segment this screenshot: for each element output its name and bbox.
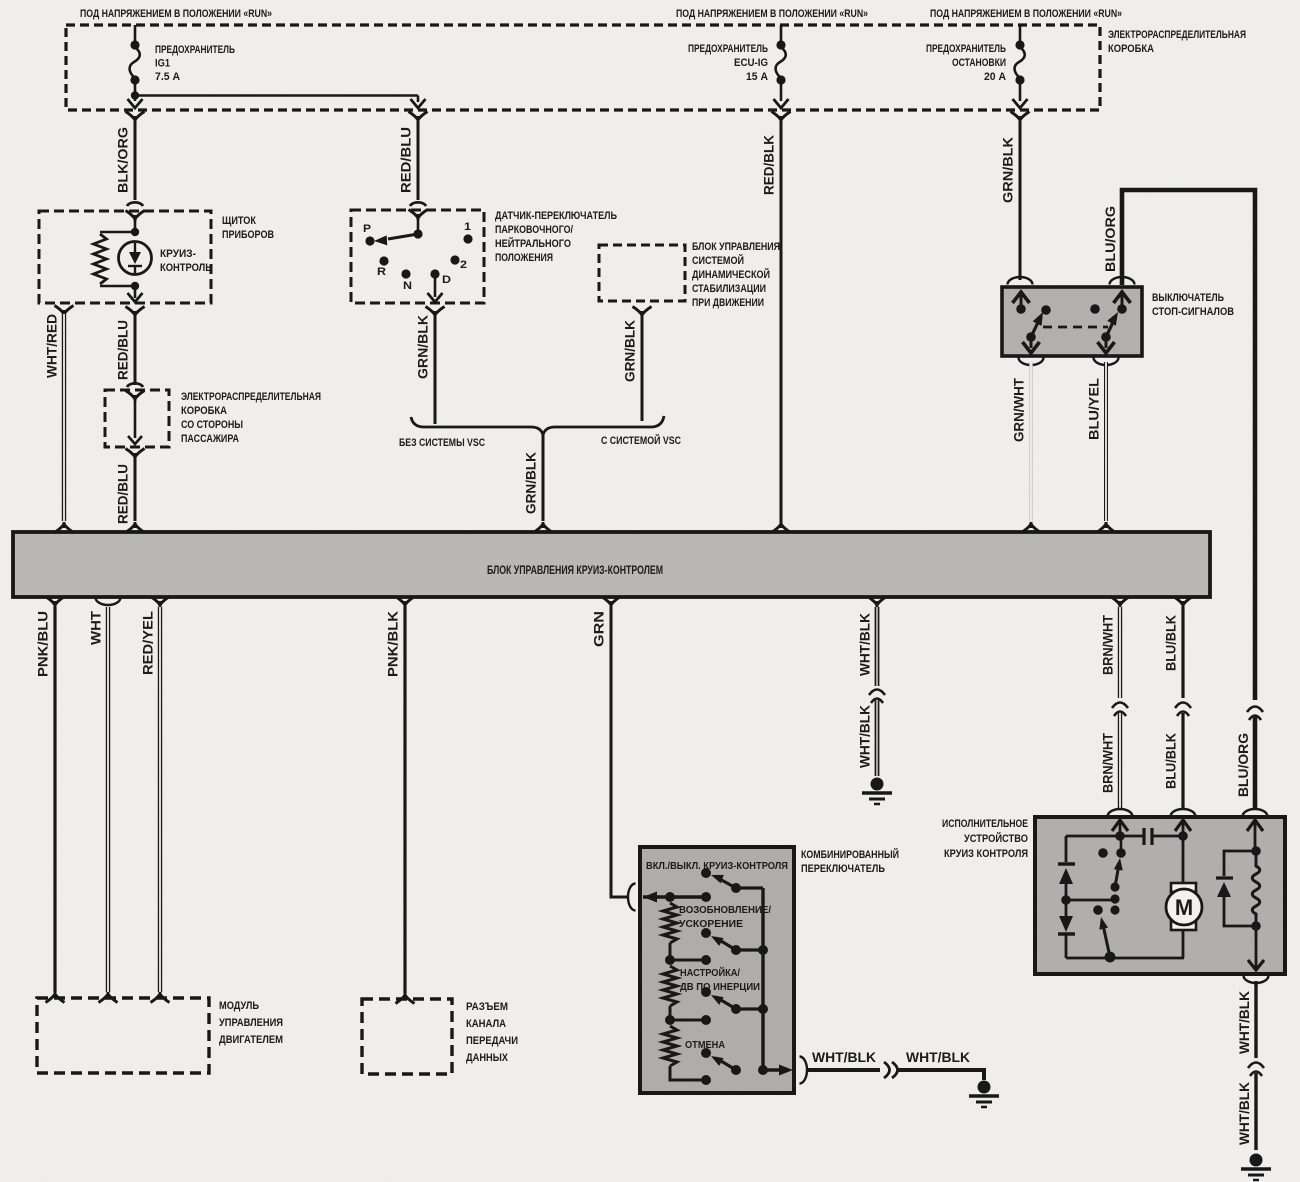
wire BLU/BLK (lower) [1181, 713, 1184, 809]
label: МОДУЛЬ УПРАВЛЕНИЯ ДВИГАТЕЛЕМ [219, 1000, 283, 1046]
main node A [665, 892, 675, 902]
wire: fuse IG1 junction to RED/BLU drop [131, 91, 426, 108]
motor M [1166, 883, 1202, 958]
wire BLU/BLK (upper) [1181, 607, 1184, 698]
wire from contact D [428, 274, 443, 302]
connector below VSC box [633, 307, 652, 318]
stop switch left blade [1031, 310, 1047, 337]
ground (actuator) [1241, 1154, 1271, 1181]
label: ВОЗОБНОВЛЕНИЕ/УСКОРЕНИЕ [679, 904, 771, 930]
wire BRN/WHT (lower) [1118, 713, 1122, 809]
wire label WHT/BLK (lower) [858, 705, 873, 768]
wire WHT/RED [62, 314, 66, 521]
break connector WHT/BLK [869, 690, 885, 704]
connector BRN/WHT at module [1111, 597, 1130, 608]
connector BLU/BLK at module [1174, 597, 1193, 608]
connector below park/neutral switch [426, 307, 445, 318]
label: ПРЕДОХРАНИТЕЛЬ ОСТАНОВКИ 20 А [926, 43, 1006, 83]
net label: ПОД НАПРЯЖЕНИЕМ В ПОЛОЖЕНИИ RUN (right) [930, 8, 1122, 20]
connector at bottom of passenger J/B [126, 449, 145, 460]
wire RED/BLK [780, 118, 783, 522]
capacitor C1 [1144, 828, 1188, 845]
wire GRN/WHT [1029, 362, 1033, 521]
wire label GRN/WHT [1012, 377, 1027, 442]
connector below stop switch (BLU/YEL) [1094, 358, 1119, 366]
wire label RED/BLU (upper) [116, 320, 131, 380]
clutch coil node top [1251, 846, 1261, 856]
cancel blade [709, 1052, 736, 1070]
wire label WHT/BLK (actuator upper) [1237, 991, 1252, 1054]
stub to set contact [670, 1015, 711, 1025]
cruise indicator lamp [119, 242, 152, 275]
cancel blade pivot [731, 1065, 741, 1075]
label: ЭЛЕКТРОРАСПРЕДЕЛИТЕЛЬНАЯ КОРОБКА [1108, 29, 1246, 55]
label: БЕЗ СИСТЕМЫ VSC [399, 437, 485, 449]
stop switch left contact [1041, 305, 1051, 315]
wire label WHT/BLK (ground side) [906, 1050, 970, 1065]
stop switch left pivot [1026, 332, 1036, 342]
wire WHT/BLK (actuator upper) [1254, 981, 1257, 1058]
wire GRN/BLK from stop fuse [1019, 118, 1022, 280]
label: НАСТРОЙКА/ДВ ПО ИНЕРЦИИ [680, 966, 760, 993]
label: ИСПОЛНИТЕЛЬНОЕ УСТРОЙСТВО КРУИЗ КОНТРОЛЯ [942, 818, 1028, 860]
stop switch right pivot [1101, 332, 1111, 342]
cancel switch contact [701, 1048, 711, 1058]
connector BLU/BLK at actuator [1171, 809, 1196, 817]
wire WHT/BLK (switch to break) [808, 1068, 880, 1072]
connector PNK/BLK at module [396, 597, 415, 608]
safety switch contact [1116, 848, 1126, 858]
resistor in cluster [94, 232, 136, 286]
stop switch contact node left [1016, 304, 1026, 314]
label: ОТМЕНА [685, 1039, 725, 1051]
node R2 bottom [665, 1006, 675, 1025]
net label: ПОД НАПРЯЖЕНИЕМ В ПОЛОЖЕНИИ RUN (left) [80, 8, 272, 20]
set/coast switch contact [701, 987, 711, 997]
on/off blade pivot [731, 883, 763, 893]
wire PNK/BLK [403, 607, 406, 993]
wire label PNK/BLU [36, 611, 51, 677]
label: ПРЕДОХРАНИТЕЛЬ IG1 7.5 А [155, 44, 235, 83]
connector at top of GRN/BLK stop-fuse wire [1011, 112, 1030, 123]
wire label BLU/ORG (lower) [1236, 733, 1251, 797]
resume blade pivot [731, 945, 768, 955]
wire label RED/BLU [399, 127, 414, 193]
cruise actuator box [1035, 817, 1285, 974]
connector GRN at combination switch [628, 884, 636, 911]
connector RED/YEL at module [151, 597, 170, 608]
stop switch left exit arrow [1023, 337, 1040, 353]
junction node bottom of lamp [131, 282, 139, 290]
connector BRN/WHT at actuator [1108, 809, 1133, 817]
engine control module box (dashed) [37, 998, 209, 1073]
wire label WHT/BLK (switch side) [812, 1050, 876, 1065]
cruise control module block [13, 532, 1210, 597]
resume/accel blade [709, 932, 736, 950]
stop switch terminal arrow (GRN/BLK) [1013, 292, 1030, 306]
connector WHT/BLK at combination switch [800, 1057, 808, 1084]
connector PNK/BLK at DLC [396, 993, 415, 1004]
net label: ПОД НАПРЯЖЕНИЕМ В ПОЛОЖЕНИИ RUN (middle) [676, 8, 868, 20]
electrical distribution box (dashed outline) [66, 25, 1100, 110]
control switch blade [1097, 916, 1110, 957]
variant brace (БЕЗ/С СИСТЕМОЙ VSC) [411, 416, 664, 435]
on/off switch contact [701, 868, 711, 878]
label: С СИСТЕМОЙ VSC [601, 434, 681, 447]
control switch pivot [1105, 952, 1116, 963]
wire WHT [106, 607, 110, 992]
wire label GRN [592, 611, 607, 647]
wire label BLU/BLK (lower) [1164, 733, 1179, 789]
on/off switch blade [709, 871, 736, 888]
safety switch contact stub [1120, 836, 1123, 850]
safety switch blade [1114, 857, 1125, 887]
control switch free contact [1093, 905, 1103, 915]
label: ДАТЧИК-ПЕРЕКЛЮЧАТЕЛЬ ПАРКОВОЧНОГО/НЕЙТРАЛЬНОГО ПОЛОЖЕНИЯ [495, 210, 617, 264]
passenger side J/B box (dashed) [105, 390, 169, 447]
contact plate upper [1058, 862, 1075, 865]
label: БЛОК УПРАВЛЕНИЯ СИСТЕМОЙ ДИНАМИЧЕСКОЙ СТАБИЛИЗАЦИИ ПРИ ДВИЖЕНИИ [692, 241, 780, 309]
label: ЭЛЕКТРОРАСПРЕДЕЛИТЕЛЬНАЯ КОРОБКА СО СТОРОНЫ ПАССАЖИРА [181, 391, 321, 445]
stop switch terminal arrow (BLU/ORG) [1114, 292, 1131, 306]
main node B [701, 892, 711, 902]
wire WHT/BLK (actuator lower) [1254, 1073, 1257, 1150]
wire PNK/BLU [53, 607, 56, 992]
wire label GRN/BLK (stop fuse) [1001, 137, 1016, 203]
connector of GRN/BLK at cruise module [534, 522, 553, 533]
break connector BLU/ORG [1247, 707, 1263, 721]
set blade pivot [731, 1004, 768, 1014]
connector of WHT/RED at cluster [55, 306, 74, 317]
label: ВКЛ./ВЫКЛ. КРУИЗ-КОНТРОЛЯ [646, 860, 788, 872]
set/coast blade [709, 991, 736, 1009]
stop switch contact node right [1117, 304, 1127, 314]
connector of GRN/WHT at cruise module [1022, 522, 1041, 533]
connector of WHT/RED at cruise module [55, 522, 74, 533]
scan noise overlay [0, 0, 1, 1]
label: КРУИЗ-КОНТРОЛЬ [160, 248, 212, 274]
contact plate lower [1058, 934, 1075, 958]
wire through passenger J/B [128, 399, 142, 444]
connector of RED/BLU below cluster [126, 307, 145, 318]
wire RED/YEL [158, 607, 162, 992]
data link connector box (dashed) [362, 999, 452, 1074]
wire RED/BLU (passenger J/B to module) [134, 457, 137, 521]
clutch coil [1252, 853, 1260, 926]
connector PNK/BLU at ECM [46, 992, 65, 1003]
wire WHT/BLK (module to break) [875, 607, 880, 686]
wire inside cluster [128, 219, 143, 302]
wire label RED/BLK [762, 135, 777, 195]
clutch diode branch [1216, 851, 1256, 926]
actuator entry arrow BRN/WHT [1112, 820, 1128, 836]
resistor R2 (set/coast) [663, 966, 677, 1006]
connector WHT/BLK below actuator [1244, 976, 1269, 984]
connector at top of RED/BLU wire [409, 112, 428, 123]
connector into stop lamp switch [1008, 277, 1033, 285]
wire label WHT [89, 610, 104, 645]
connector below stop switch (GRN/WHT) [1019, 358, 1044, 366]
wire label BRN/WHT (lower) [1101, 732, 1116, 793]
connector WHT at ECM [99, 992, 118, 1003]
break connector WHT/BLK (horizontal) [884, 1062, 898, 1078]
stop switch free contact [1090, 304, 1100, 314]
motor feed wire [1182, 836, 1185, 884]
resistor R3 (cancel) [663, 1026, 677, 1066]
connector GRN at module [602, 597, 621, 608]
mechanical link (dashed) [1043, 326, 1108, 329]
actuator mid wire [1066, 899, 1115, 902]
connector of RED/BLK at cruise control module [772, 522, 791, 533]
connector WHT/BLK at module [868, 597, 887, 608]
wire WHT/BLK (break to ground) [898, 1070, 984, 1080]
stop switch right blade [1106, 310, 1122, 338]
wire BLU/ORG from stop switch to right rail [1122, 190, 1255, 809]
selector arm to P [374, 234, 418, 246]
label: ЩИТОК ПРИБОРОВ [222, 215, 274, 241]
fuse ECU-IG 15A [774, 25, 789, 108]
connector of RED/BLU at cruise module [126, 522, 145, 533]
wire GRN [611, 607, 629, 897]
connector WHT at module [96, 598, 121, 605]
label: ПРЕДОХРАНИТЕЛЬ ECU-IG 15 А [688, 43, 768, 83]
combination switch box [640, 847, 794, 1093]
break connector BLU/BLK [1175, 703, 1191, 717]
clutch coil node bottom [1251, 921, 1261, 931]
wire label WHT/BLK (actuator lower) [1237, 1082, 1252, 1145]
instrument cluster box (dashed) [39, 211, 211, 303]
safety switch nodes [1110, 882, 1119, 914]
break connector BRN/WHT [1112, 703, 1128, 717]
wire label WHT/RED [45, 314, 60, 378]
wire label BLU/YEL [1087, 378, 1102, 440]
contact common node [413, 218, 422, 239]
connector at top of RED/BLK wire [772, 112, 791, 123]
contact N [401, 269, 412, 292]
wire label BRN/WHT (upper) [1101, 614, 1116, 675]
actuator top wire [1066, 831, 1144, 841]
actuator bottom wire [1066, 957, 1184, 960]
VSC control module box (dashed) [599, 245, 685, 301]
actuator exit wire [1248, 926, 1264, 971]
stop lamp switch box [1002, 287, 1142, 356]
wire GRN/BLK (to cruise module) [542, 435, 545, 521]
ground (cruise module WHT/BLK) [862, 778, 892, 805]
wire label GRN/BLK (VSC) [623, 320, 638, 382]
contact P [363, 223, 375, 246]
resistor R1 (resume/accel) [663, 903, 677, 943]
contact R [377, 256, 389, 278]
connector into instrument cluster [126, 202, 145, 221]
label: РАЗЪЕМ КАНАЛА ПЕРЕДАЧИ ДАННЫХ [466, 1001, 518, 1064]
wire GRN/BLK (park switch) [434, 315, 437, 424]
connector BLU/ORG at actuator [1243, 809, 1268, 817]
free node [1098, 848, 1108, 858]
wire BLK/ORG [134, 118, 137, 200]
connector into park/neutral switch [409, 202, 428, 220]
wire label GRN/BLK (center) [524, 452, 539, 514]
actuator left upper branch [1065, 836, 1068, 862]
wire label RED/YEL [141, 611, 156, 675]
label: ВЫКЛЮЧАТЕЛЬ СТОП-СИГНАЛОВ [1152, 292, 1234, 318]
park/neutral position switch box (dashed) [351, 210, 484, 303]
stop switch right exit arrow [1098, 337, 1115, 353]
actuator entry arrow BLU/ORG [1247, 820, 1263, 851]
wire label BLU/BLK (upper) [1164, 615, 1179, 671]
diode D1 (up) [1059, 868, 1073, 900]
contact 2 [450, 255, 467, 271]
wire RED/BLU (cluster to passenger J/B) [134, 315, 137, 385]
break connector WHT/BLK (actuator) [1248, 1063, 1264, 1077]
connector at top of BLK/ORG wire [126, 112, 145, 123]
wire label WHT/BLK (upper) [858, 613, 873, 676]
wire BLU/YEL [1104, 362, 1108, 521]
wire label BLK/ORG [116, 127, 131, 193]
wire label RED/BLU (lower) [116, 464, 131, 524]
wire label PNK/BLK [386, 611, 401, 677]
node C [1061, 895, 1071, 905]
entry arrow into combination switch [643, 892, 706, 903]
resume/accel switch contact [701, 928, 711, 938]
wire RED/BLU [417, 118, 420, 200]
label: КОМБИНИРОВАННЫЙ ПЕРЕКЛЮЧАТЕЛЬ [801, 848, 899, 875]
exit wire of combination switch [763, 1065, 793, 1076]
wire label BLU/ORG (top) [1103, 206, 1118, 272]
stub to resume contact [670, 955, 711, 965]
contact D [430, 269, 451, 286]
label: БЛОК УПРАВЛЕНИЯ КРУИЗ-КОНТРОЛЕМ [487, 565, 663, 577]
ground (combination switch) [969, 1081, 999, 1108]
fuse ОСТАНОВКИ 20A [1013, 25, 1028, 108]
connector of BLU/YEL at cruise module [1097, 522, 1116, 533]
connector RED/YEL at ECM [151, 992, 170, 1003]
connector at top of passenger J/B [126, 383, 145, 401]
wire WHT/BLK (break to ground) [875, 700, 880, 776]
junction node top of lamp [131, 228, 139, 236]
connector of BLU/ORG at stop switch [1110, 277, 1135, 285]
fuse IG1 7.5A [128, 25, 143, 108]
connector PNK/BLU at module [46, 597, 65, 608]
diode D2 (down) [1059, 900, 1073, 932]
node R1 bottom [665, 943, 675, 965]
wire BRN/WHT (upper) [1118, 607, 1122, 698]
contact 1 [463, 221, 472, 244]
switch bus wire [758, 888, 768, 1075]
wire label GRN/BLK (park) [416, 315, 431, 379]
wire R3 to bottom stub [670, 1066, 711, 1085]
actuator entry arrow BLU/BLK [1175, 820, 1191, 836]
wire GRN/BLK (VSC) [641, 315, 644, 421]
